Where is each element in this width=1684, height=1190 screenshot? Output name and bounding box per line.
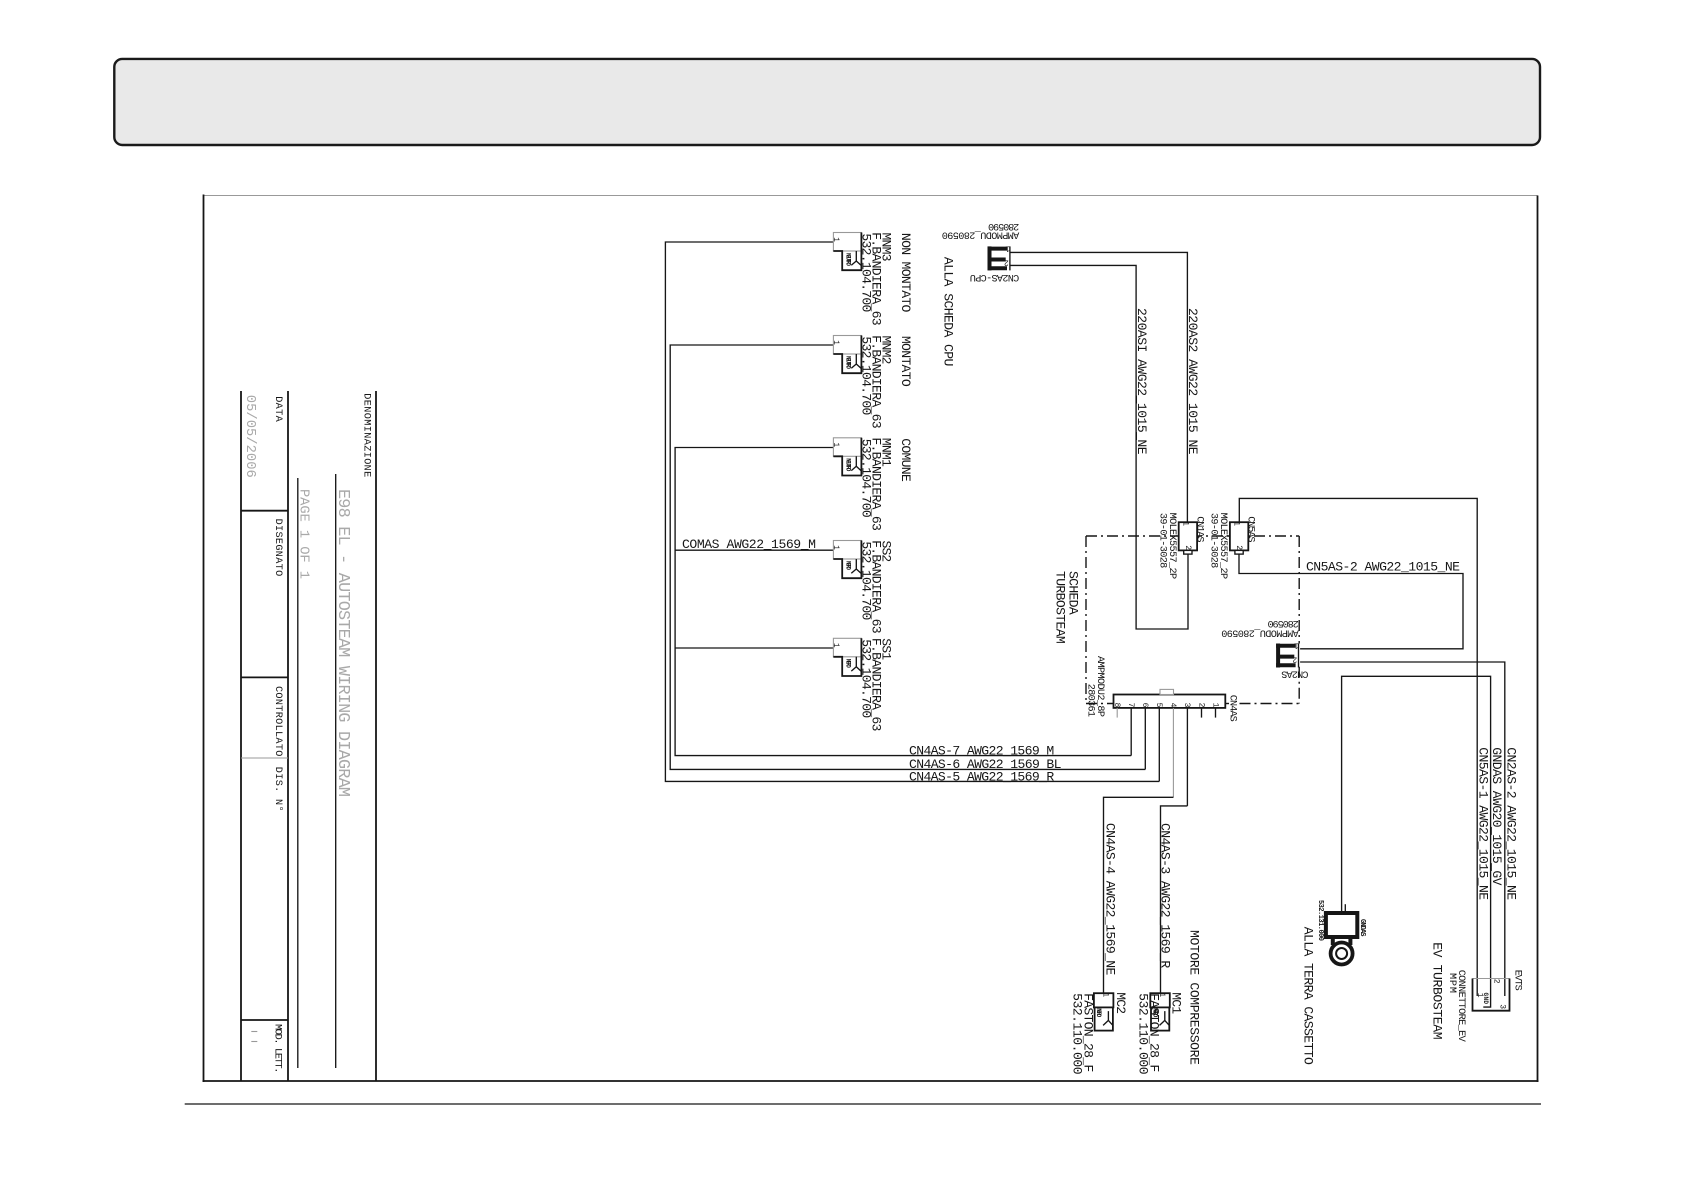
svg-text:39-01-3028: 39-01-3028 bbox=[1156, 513, 1167, 568]
svg-text:3: 3 bbox=[1498, 1004, 1507, 1009]
faston terminal MC2 bbox=[1094, 992, 1114, 1030]
wire branch COMAS to SS2 bbox=[675, 549, 833, 551]
connector CN5AS (MOLEX5557_2P) bbox=[1230, 521, 1248, 554]
svg-text:ALLA TERRA CASSETTO: ALLA TERRA CASSETTO bbox=[1301, 927, 1316, 1065]
wire CN4AS-3 net to MC1 bbox=[1161, 806, 1188, 994]
svg-text:1: 1 bbox=[831, 442, 840, 447]
svg-text:1: 1 bbox=[1210, 703, 1219, 708]
labels for SS1 bbox=[858, 638, 893, 732]
svg-text:532.104.700: 532.104.700 bbox=[858, 639, 873, 718]
svg-text:1: 1 bbox=[831, 237, 840, 242]
connector CN1AS (MOLEX5557_2P) bbox=[1179, 521, 1197, 554]
svg-text:DENOMINAZIONE: DENOMINAZIONE bbox=[361, 393, 372, 477]
faston terminal MC1 bbox=[1150, 992, 1170, 1030]
SCHEDA TURBOSTEAM bottom edge right of CN4AS bbox=[1225, 703, 1229, 705]
svg-text:7: 7 bbox=[1126, 703, 1135, 708]
svg-text:MC2: MC2 bbox=[1113, 992, 1128, 1014]
svg-text:2: 2 bbox=[1183, 545, 1192, 550]
svg-text:532.104.700: 532.104.700 bbox=[858, 336, 873, 415]
svg-text:532.110.000: 532.110.000 bbox=[1136, 993, 1151, 1075]
header box bbox=[114, 59, 1540, 145]
drawing border top (gray) bbox=[204, 195, 1538, 197]
wire GNDAS net: ground to EVTS GND pin bbox=[1342, 676, 1491, 1007]
svg-text:05/05/2006: 05/05/2006 bbox=[242, 395, 258, 478]
labels for MNM3 bbox=[858, 232, 913, 326]
svg-text:AMPMODU_280590: AMPMODU_280590 bbox=[942, 229, 1020, 240]
svg-text:2: 2 bbox=[1234, 545, 1243, 550]
connector CN2AS-CPU (AMPMODU_280590) bbox=[988, 243, 1011, 270]
title block row line 2 bbox=[287, 391, 289, 1081]
svg-text:CN4AS-5 AWG22_1569_R: CN4AS-5 AWG22_1569_R bbox=[909, 769, 1054, 784]
svg-text:2: 2 bbox=[1004, 258, 1009, 267]
CN4AS pin6 wire bbox=[1144, 708, 1146, 770]
svg-text:NERO: NERO bbox=[845, 659, 852, 668]
svg-text:3: 3 bbox=[1182, 703, 1191, 708]
svg-text:GNDAS: GNDAS bbox=[1358, 919, 1366, 937]
svg-text:1: 1 bbox=[1294, 640, 1299, 649]
svg-text:MC1: MC1 bbox=[1169, 992, 1184, 1014]
wire 220AS2: CN2AS-CPU pin1 to CN1AS pin1 bbox=[1010, 252, 1187, 522]
SCHEDA TURBOSTEAM right edge lower bbox=[1298, 667, 1300, 704]
faston flag terminal MNM1 bbox=[831, 438, 861, 476]
svg-text:2: 2 bbox=[1492, 979, 1501, 984]
connector CN2AS (AMPMODU_280590) bbox=[1276, 640, 1299, 667]
svg-text:DISEGNATO: DISEGNATO bbox=[272, 519, 283, 577]
wire bus B (CN4AS-6 net to MNM2) bbox=[670, 345, 1145, 769]
svg-text:CONTROLLATO: CONTROLLATO bbox=[272, 686, 283, 756]
wire CN5AS-2: CN5AS pin2 to CN2AS pin1 bbox=[1239, 554, 1463, 649]
svg-text:PAGE 1 OF 1: PAGE 1 OF 1 bbox=[295, 489, 310, 579]
svg-text:ALLA SCHEDA CPU: ALLA SCHEDA CPU bbox=[941, 257, 956, 367]
SCHEDA TURBOSTEAM top edge bbox=[1086, 535, 1299, 537]
SCHEDA TURBOSTEAM bottom edge left of CN4AS bbox=[1086, 703, 1114, 705]
svg-text:532.104.700: 532.104.700 bbox=[858, 541, 873, 620]
ground ring terminal GNDAS bbox=[1326, 904, 1357, 964]
svg-text:EVTS: EVTS bbox=[1511, 970, 1522, 991]
title block cell divider DATA/DISEGNATO bbox=[241, 510, 288, 512]
wire CN2AS-2: CN2AS pin2 to EVTS pin2 bbox=[1300, 662, 1505, 996]
drawing border right bbox=[1537, 196, 1539, 1083]
CN4AS pin1 stub bbox=[1215, 708, 1217, 718]
svg-text:CN2AS-2 AWG22_1015_NE: CN2AS-2 AWG22_1015_NE bbox=[1503, 747, 1518, 900]
connector EVTS body bbox=[1473, 979, 1510, 1011]
svg-text:NERO: NERO bbox=[845, 561, 852, 570]
svg-text:MONTATO: MONTATO bbox=[898, 336, 913, 387]
wire CN5AS-1: CN5AS pin1 to EVTS pin1 bbox=[1239, 498, 1477, 996]
svg-text:1: 1 bbox=[831, 545, 840, 550]
wire bus A (CN4AS-5 net to MNM3) bbox=[665, 242, 1159, 781]
svg-text:CN5AS-2 AWG22_1015_NE: CN5AS-2 AWG22_1015_NE bbox=[1306, 560, 1460, 575]
svg-text:NEUTRO: NEUTRO bbox=[845, 458, 852, 471]
drawing border left bbox=[203, 195, 205, 1083]
connector CN4AS (AMPMODU2_8P) body bbox=[1114, 689, 1226, 708]
CN4AS pin5 wire bbox=[1158, 708, 1160, 782]
svg-text:DATA: DATA bbox=[272, 396, 283, 422]
svg-text:2: 2 bbox=[1292, 655, 1297, 664]
wire 220ASI: CN2AS-CPU pin2 to CN1AS pin2 bbox=[1010, 265, 1188, 629]
svg-text:GND: GND bbox=[1482, 993, 1489, 1005]
svg-text:532.104.700: 532.104.700 bbox=[858, 439, 873, 518]
svg-text:1: 1 bbox=[831, 643, 840, 648]
svg-text:532.131.000: 532.131.000 bbox=[1316, 900, 1324, 941]
svg-text:MOD. LETT.: MOD. LETT. bbox=[271, 1024, 282, 1073]
svg-text:EV TURBOSTEAM: EV TURBOSTEAM bbox=[1430, 942, 1445, 1040]
SCHEDA TURBOSTEAM right edge upper bbox=[1298, 536, 1300, 644]
title block row line 3 bbox=[240, 391, 242, 1081]
labels for MNM2 bbox=[858, 335, 913, 429]
svg-text:CN4AS-3 AWG22_1569_R: CN4AS-3 AWG22_1569_R bbox=[1158, 823, 1173, 968]
svg-text:CN5AS-1 AWG22_1015_NE: CN5AS-1 AWG22_1015_NE bbox=[1476, 747, 1491, 900]
SCHEDA TURBOSTEAM board outline (dash-dot) left edge bbox=[1085, 536, 1087, 704]
svg-text:6: 6 bbox=[1140, 703, 1149, 708]
svg-text:E98 EL - AUTOSTEAM WIRING DIAG: E98 EL - AUTOSTEAM WIRING DIAGRAM bbox=[333, 489, 352, 797]
CN4AS pin8 stub (gray) bbox=[1116, 708, 1118, 718]
svg-text:CN4AS-4 AWG22_1569_NE: CN4AS-4 AWG22_1569_NE bbox=[1103, 823, 1118, 976]
denominazione rule under page bbox=[297, 478, 299, 1068]
value mod lett dashes bbox=[251, 1031, 257, 1033]
svg-text:220ASI AWG22_1015_NE: 220ASI AWG22_1015_NE bbox=[1134, 308, 1149, 455]
svg-text:TURBOSTEAM: TURBOSTEAM bbox=[1052, 571, 1067, 644]
faston flag terminal SS2 bbox=[831, 541, 861, 579]
title block row line 1 bbox=[375, 391, 377, 1081]
svg-text:CN1AS: CN1AS bbox=[1193, 516, 1204, 542]
title block cell divider DISEGNATO/CONTROLLATO bbox=[241, 676, 288, 678]
svg-text:CN4AS-7 AWG22_1569_M: CN4AS-7 AWG22_1569_M bbox=[909, 743, 1054, 758]
svg-text:MOTORE COMPRESSORE: MOTORE COMPRESSORE bbox=[1187, 930, 1202, 1065]
svg-text:NEUTRO: NEUTRO bbox=[845, 356, 852, 369]
svg-text:1: 1 bbox=[1180, 521, 1189, 526]
CN4AS pin3 wire bbox=[1186, 708, 1188, 806]
title block cell divider DIS.N/MOD.LETT bbox=[241, 1019, 288, 1021]
svg-text:CN5AS: CN5AS bbox=[1245, 516, 1256, 542]
svg-text:COMUNE: COMUNE bbox=[898, 438, 913, 482]
CN4AS pin2 stub bbox=[1201, 708, 1203, 718]
labels for SS2 bbox=[858, 540, 893, 634]
title block cell divider CONTROLLATO/DIS.N (faint) bbox=[241, 757, 288, 759]
faston flag terminal MNM3 bbox=[831, 233, 861, 271]
svg-text:MPM: MPM bbox=[1446, 973, 1457, 993]
wire CN4AS-4 net to MC2 bbox=[1104, 797, 1174, 993]
denominazione rule under title bbox=[335, 474, 337, 1068]
svg-text:1: 1 bbox=[831, 340, 840, 345]
drawing border bottom bbox=[203, 1080, 1539, 1082]
svg-text:CN2AS: CN2AS bbox=[1281, 668, 1308, 679]
svg-text:39-01-3028: 39-01-3028 bbox=[1208, 513, 1219, 568]
wire branch COMAS to SS1 bbox=[675, 647, 833, 649]
svg-text:532.110.000: 532.110.000 bbox=[1070, 993, 1085, 1075]
svg-text:220AS2 AWG22_1015_NE: 220AS2 AWG22_1015_NE bbox=[1185, 308, 1200, 455]
CN4AS pin numbers 8..1 bbox=[1112, 703, 1219, 708]
labels for MNM1 bbox=[858, 437, 913, 531]
svg-text:5: 5 bbox=[1154, 703, 1163, 708]
footer rule bbox=[185, 1103, 1541, 1105]
faston flag terminal SS1 bbox=[831, 638, 861, 676]
svg-text:1: 1 bbox=[1101, 992, 1110, 997]
svg-text:NON MONTATO: NON MONTATO bbox=[898, 233, 913, 313]
svg-text:NEUTRO: NEUTRO bbox=[845, 253, 852, 266]
svg-text:2: 2 bbox=[1196, 703, 1205, 708]
svg-text:CN4AS: CN4AS bbox=[1227, 695, 1238, 722]
CN4AS pin7 wire bbox=[1130, 708, 1132, 756]
svg-text:1: 1 bbox=[1005, 243, 1010, 252]
svg-text:532.104.700: 532.104.700 bbox=[858, 233, 873, 312]
svg-text:CN2AS-CPU: CN2AS-CPU bbox=[970, 271, 1020, 282]
svg-text:4: 4 bbox=[1168, 703, 1177, 708]
svg-text:8: 8 bbox=[1112, 703, 1121, 708]
wire bus C (COMAS / CN4AS-7 net) bbox=[675, 448, 1131, 756]
faston flag terminal MNM2 bbox=[831, 336, 861, 374]
CN4AS pin4 stub (gray) bbox=[1172, 708, 1174, 797]
svg-text:COMAS AWG22_1569_M: COMAS AWG22_1569_M bbox=[682, 537, 816, 552]
svg-text:280361: 280361 bbox=[1085, 684, 1096, 717]
svg-text:DIS. N°: DIS. N° bbox=[272, 767, 284, 812]
svg-text:AMPMODU_280590: AMPMODU_280590 bbox=[1221, 626, 1299, 637]
